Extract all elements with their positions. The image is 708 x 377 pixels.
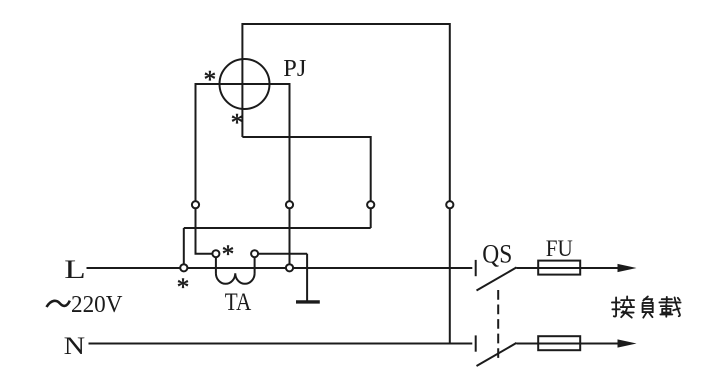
svg-text:PJ: PJ <box>283 56 306 82</box>
svg-text:L: L <box>64 255 86 284</box>
svg-text:TA: TA <box>225 289 252 316</box>
svg-text:N: N <box>64 333 86 360</box>
svg-text:*: * <box>222 241 235 268</box>
svg-text:FU: FU <box>546 236 573 261</box>
svg-text:*: * <box>204 66 217 93</box>
svg-text:*: * <box>231 110 244 137</box>
svg-text:220V: 220V <box>71 292 123 318</box>
svg-text:QS: QS <box>482 239 512 268</box>
svg-text:*: * <box>177 274 190 301</box>
